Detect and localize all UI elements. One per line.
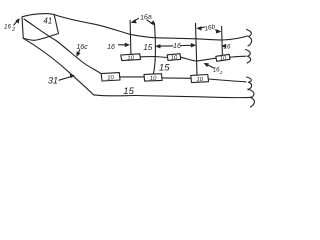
break squiggle on middle wire	[247, 77, 252, 90]
arrow from label 16_2 (right) to wire junction at V3	[206, 64, 214, 68]
arrow from label 16c down to slope line	[78, 50, 80, 54]
svg-text:15: 15	[159, 63, 170, 74]
arrow from label 31 to lower slope line	[59, 77, 72, 81]
box 10 (upper row, second)	[167, 54, 181, 61]
svg-text:10: 10	[107, 75, 115, 81]
break squiggle on bottom line	[248, 89, 254, 107]
arrow from label 16a to V1 top	[133, 18, 138, 21]
middle wire m2 to m3	[162, 77, 191, 79]
dimension arrows 16 between V2 and V3	[159, 45, 173, 47]
svg-text:16: 16	[173, 43, 181, 50]
svg-text:16: 16	[4, 23, 11, 30]
arrow dimension 16 pointing right at V1	[119, 44, 127, 46]
vertical line V1	[129, 20, 132, 54]
lower slope line 31	[23, 38, 93, 95]
block 41 internal diagonal continuing as upper slope line to box m1	[24, 19, 101, 74]
vertical line V4	[221, 27, 224, 56]
arrow from label 16_2 (left) to block edge	[14, 20, 18, 25]
ground surface line	[54, 15, 248, 41]
svg-text:15: 15	[143, 43, 152, 52]
vertical line V3	[196, 23, 198, 75]
svg-text:10: 10	[219, 56, 227, 63]
upper wire box3 to break	[230, 56, 246, 57]
bottom ground line 15	[94, 95, 253, 98]
box 10 (middle row, second)	[144, 74, 162, 81]
svg-text:16c: 16c	[76, 44, 88, 51]
break squiggle on upper wire	[246, 50, 251, 64]
box 10 (middle row, first)	[101, 73, 120, 81]
svg-text:41: 41	[43, 17, 52, 26]
box 10 (middle row, third)	[191, 75, 209, 83]
middle wire m3 to break	[209, 79, 247, 82]
svg-text:16: 16	[223, 43, 231, 50]
arrowhead of label 16 pointing left at V4	[222, 44, 226, 47]
box 10 (upper row, first)	[121, 54, 141, 61]
middle wire m1 to m2	[120, 76, 144, 78]
vertical line V2	[153, 23, 155, 74]
svg-text:10: 10	[150, 76, 158, 82]
svg-text:10: 10	[171, 55, 179, 61]
break squiggle on surface line	[247, 30, 252, 47]
svg-text:10: 10	[127, 55, 135, 61]
dimension arrows 16b between V3 and V4	[200, 26, 204, 29]
box 10 (upper row, third)	[216, 54, 230, 61]
svg-text:16: 16	[107, 44, 115, 51]
svg-text:16a: 16a	[140, 13, 153, 22]
svg-text:15: 15	[123, 86, 134, 97]
upper wire box2 to box3	[181, 57, 216, 61]
svg-text:2: 2	[11, 27, 15, 33]
block 41 outline	[22, 14, 59, 41]
upper wire box1 to box2	[141, 57, 168, 58]
svg-text:2: 2	[219, 70, 223, 75]
svg-text:31: 31	[48, 76, 58, 86]
svg-text:16b: 16b	[204, 23, 217, 33]
arrow from label 16a to V2 top	[147, 20, 153, 24]
svg-text:10: 10	[196, 77, 204, 83]
